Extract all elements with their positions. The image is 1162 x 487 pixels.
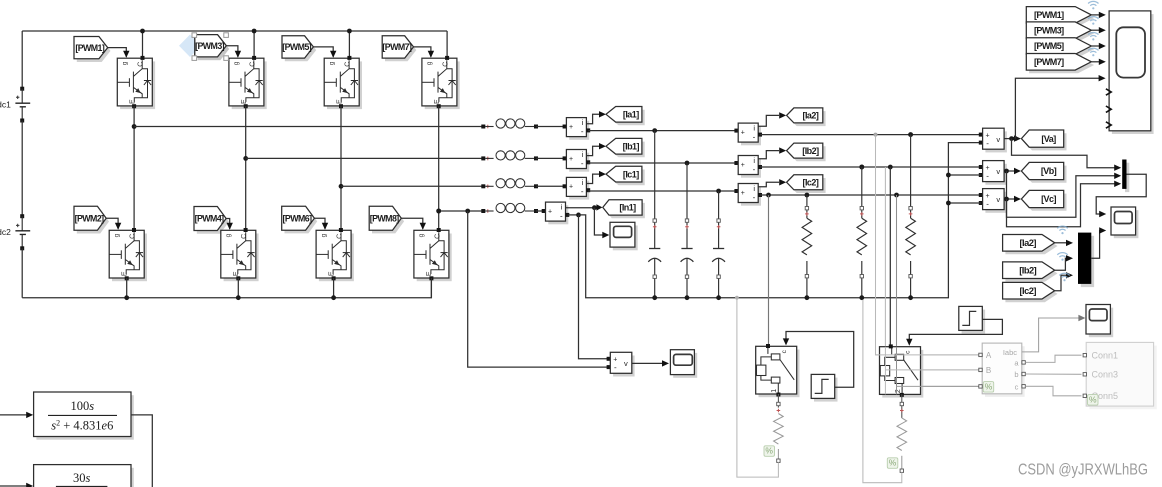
wire inductor to CM In1 (536, 210, 546, 212)
svg-text:+: + (548, 208, 552, 215)
From tag [PWM3] (redraw over highlight) (198, 38, 230, 60)
circuit breaker B1 (759, 350, 800, 398)
Goto tag [Ia1] (609, 110, 645, 126)
wire Vb to mux1 (1007, 171, 1118, 217)
comment badge R-B2 (887, 458, 898, 469)
port CM1 output (586, 128, 590, 132)
svg-text:[Ia2]: [Ia2] (1020, 238, 1037, 248)
battery Idc1 (20, 87, 24, 91)
wire phase c to breaker1 (768, 195, 770, 345)
svg-text:C: C (138, 62, 145, 67)
inductor L3 (481, 184, 485, 188)
port Iabc b out (1022, 372, 1025, 375)
svg-text:g: g (122, 61, 129, 65)
svg-text:C: C (249, 62, 256, 67)
svg-text:Conn3: Conn3 (1092, 370, 1119, 380)
capacitor C3 (718, 191, 720, 249)
wire Vb minus to rail (948, 174, 980, 176)
svg-text:E: E (328, 271, 335, 276)
wire commented phase a to Iabc A (876, 135, 980, 355)
resistor R2 (859, 165, 864, 170)
From tag [PWM1] monitor (1029, 10, 1094, 27)
wire neutral to capacitor bus (579, 143, 981, 298)
wire phase a stage2 (588, 130, 738, 132)
wire Va to scope input 5 (1015, 78, 1100, 138)
wire emitter to return bus leg3 (333, 278, 335, 298)
circuit breaker B2 (882, 350, 923, 398)
node phase tap leg2 (243, 156, 248, 161)
wire commented phase b to Iabc B (885, 167, 979, 370)
node commented return junction B1 (735, 296, 739, 300)
node neutral split (576, 213, 581, 218)
svg-text:B: B (986, 366, 991, 375)
port Iabc A (979, 353, 982, 356)
wire gate [PWM3] (226, 46, 238, 57)
capacitor C2 (686, 163, 688, 249)
transfer function 100s/(s^2+4.831e6) (36, 395, 133, 440)
From tag [PWM7] monitor (1029, 57, 1094, 74)
svg-text:[PWM5]: [PWM5] (282, 42, 312, 52)
wire left rail middle (21, 121, 23, 217)
svg-text:g: g (320, 233, 327, 237)
node return bus junction leg1 (124, 295, 129, 300)
scope Scope-In1 (613, 226, 638, 251)
wire [PWM3] to scope (1091, 29, 1101, 31)
Goto tag [Vc] (1024, 194, 1066, 211)
port Conn5 (1083, 394, 1086, 397)
svg-text:[PWM8]: [PWM8] (370, 213, 400, 223)
svg-text:A: A (986, 351, 992, 360)
wire Iabc c to Conn5 (1025, 386, 1081, 396)
svg-text:C: C (241, 234, 248, 239)
svg-text:-: - (581, 187, 584, 196)
port E lower leg2 (236, 276, 240, 280)
IGBT/Diode lower leg 3 (U6) (319, 234, 354, 282)
port V4 plus (607, 357, 611, 361)
wire step2 to breaker2 c (909, 319, 1002, 342)
transfer function 30s/(...) (36, 468, 133, 487)
current measurement CM2-2 (741, 159, 761, 178)
port CM2 input (563, 156, 567, 160)
port C lower leg4 (437, 228, 441, 232)
svg-text:[Ia1]: [Ia1] (623, 110, 639, 120)
node top bus junction leg3 (347, 29, 352, 34)
port V3 plus (979, 193, 983, 197)
node top bus junction leg2 (252, 29, 257, 34)
wire TF1 output (131, 415, 152, 487)
port breaker1 top (766, 344, 770, 348)
port C lower leg1 (132, 228, 136, 232)
wire i-out CM3 (586, 174, 599, 183)
From tag [PWM4] (197, 210, 229, 234)
step block Step1 (814, 378, 838, 402)
svg-text:[Ib2]: [Ib2] (802, 146, 819, 156)
wire i-out CM1 (586, 114, 599, 123)
svg-text:-: - (614, 363, 617, 372)
svg-text:[Vb]: [Vb] (1041, 166, 1057, 176)
wire commented Iabc A overlay (876, 354, 980, 356)
svg-text:E: E (233, 271, 240, 276)
node phase tap leg4 (436, 209, 441, 214)
svg-text:C: C (345, 62, 352, 67)
current measurement CM2-3 (741, 187, 761, 206)
IGBT/Diode lower leg 4 (U8) (417, 234, 452, 282)
node commented tap on phase a (874, 133, 878, 137)
capacitor C1 (654, 131, 656, 249)
svg-text:[PWM6]: [PWM6] (283, 213, 313, 223)
svg-text:+: + (741, 190, 745, 197)
port E upper leg2 (244, 104, 248, 108)
wire emitter to return bus leg4 (430, 278, 432, 298)
node Va junction 2 (1013, 136, 1018, 141)
wire commented pass-through over breaker2 a (884, 347, 886, 395)
wire phase c stage2 (588, 190, 738, 192)
port E upper leg1 (132, 104, 136, 108)
wire phase n to inductor (439, 210, 484, 212)
unconnected scope inputs (1106, 89, 1111, 95)
svg-text:C: C (337, 234, 344, 239)
svg-text:-: - (581, 159, 584, 168)
port breaker1 bottom (776, 393, 780, 397)
port Iabc C (979, 385, 982, 388)
wire inductor to CM Ia1 (536, 126, 566, 128)
port Iabc B (979, 368, 982, 371)
svg-text:c: c (1015, 382, 1019, 391)
battery Idc2 (20, 214, 24, 218)
port CM2-3 output (758, 193, 762, 197)
inductor L2 (481, 156, 485, 160)
svg-text:+: + (569, 156, 573, 163)
signal logging badge [PWM1] (1088, 1, 1098, 9)
From tag [PWM2] (77, 210, 109, 234)
port V4 minus (607, 365, 611, 369)
Goto tag [In1] (606, 203, 645, 218)
wire CM4 to Scope In1 (594, 208, 605, 235)
wire C-bus to IGBT1 (142, 31, 144, 58)
svg-text:Idc1: Idc1 (0, 99, 11, 109)
wire mux1 to scope VaVbVc (1096, 174, 1146, 214)
IGBT/Diode upper leg 3 (U5) (327, 61, 362, 109)
svg-text:-: - (581, 127, 584, 136)
port breaker2 bottom (900, 393, 904, 397)
signal logging badge Ic2 (1059, 273, 1069, 281)
port E lower leg4 (429, 276, 433, 280)
current measurement CM2 (569, 153, 589, 172)
wire C-bus to IGBT5 (348, 31, 350, 58)
wire phase c to inductor (341, 185, 483, 187)
wire phase b to breaker2 (889, 167, 891, 345)
port CM4 output (565, 213, 569, 217)
resistor R-B1 (commented) (777, 402, 780, 405)
wire V1 output (1004, 138, 1016, 140)
svg-text:Iabc: Iabc (1003, 348, 1017, 357)
voltage measurement Vc (985, 192, 1007, 213)
step block Step2 (962, 310, 986, 334)
From tag [PWM6] (285, 209, 318, 233)
svg-text:[Va]: [Va] (1041, 134, 1056, 144)
wire [Ib2] to mux2 (1055, 258, 1069, 270)
port CM3 input (563, 184, 567, 188)
svg-text:[Ic2]: [Ic2] (803, 178, 819, 188)
From tag [PWM5] monitor (1029, 41, 1094, 58)
node Va junction 1 (1009, 136, 1014, 141)
svg-text:g: g (426, 61, 433, 65)
wire [Ia2] to mux2 (1055, 242, 1069, 244)
port V1 plus (979, 133, 983, 137)
node top bus junction leg1 (140, 29, 145, 34)
wire phase leg 2 vertical (245, 106, 247, 230)
wire phase leg 4 vertical (438, 106, 440, 230)
wire inductor to CM Ib1 (536, 157, 566, 159)
svg-text:+: + (569, 184, 573, 191)
IGBT/Diode upper leg 1 (U1) (120, 61, 155, 109)
resistor R1 (805, 193, 810, 198)
node Vb junction (1004, 169, 1009, 174)
voltage measurement Va (985, 131, 1007, 152)
wire emitter to return bus leg1 (126, 278, 128, 298)
svg-text:v: v (996, 167, 1000, 176)
scope Scope-Iabc (1089, 308, 1113, 338)
Goto tag [Ib2] (789, 146, 825, 161)
node resistor R2 tap on phase b (859, 165, 864, 170)
IGBT/Diode upper leg 2 (U3) (232, 61, 267, 109)
wire bottom return bus (22, 278, 431, 298)
current measurement CM1 (569, 121, 589, 140)
node return bus junction leg2 (236, 295, 241, 300)
svg-text:C: C (442, 62, 449, 67)
svg-text:-: - (753, 165, 756, 174)
wire Iabc meas to scope3 (1022, 318, 1081, 352)
comment badge Iabc (983, 382, 994, 393)
port V3 minus (979, 201, 983, 205)
wire commented return loop B2 (863, 300, 902, 483)
comment badge Conn (1088, 395, 1099, 406)
node resistor R3 tap on phase a (908, 132, 913, 137)
wire phase leg 3 vertical (340, 106, 342, 230)
svg-text:30s: 30s (73, 471, 91, 485)
port CM2-2 output (758, 165, 762, 169)
port CM2-2 input (734, 161, 738, 165)
wire inductor to CM Ic1 (536, 185, 566, 187)
svg-text:g: g (418, 233, 425, 237)
wire phase b stage2 (588, 162, 738, 164)
wire Vc minus to rail (948, 202, 980, 204)
wire input to TF2 (0, 485, 29, 487)
signal logging badge [PWM3] (1088, 17, 1098, 25)
wire phase b to inductor (246, 157, 484, 159)
svg-text:%: % (985, 382, 993, 392)
wire commented pass-through over breaker2 b (896, 347, 898, 395)
svg-text:g: g (328, 61, 335, 65)
svg-text:[PWM2]: [PWM2] (75, 214, 105, 224)
block Iabc three-phase measurement (commented) (985, 346, 1025, 397)
svg-text:g: g (233, 61, 240, 65)
voltage measurement V4 (613, 356, 635, 377)
wire left rail lower (21, 248, 23, 297)
port Conn3 (1083, 373, 1086, 376)
svg-text:v: v (624, 359, 628, 368)
mux Mux2 (1081, 236, 1094, 287)
wire i-out CM2-3 (758, 182, 779, 186)
svg-text:+: + (741, 162, 745, 169)
wire phase b to V2 (760, 166, 981, 168)
node phase tap leg3 (339, 184, 344, 189)
wire Va to mux1 (1012, 139, 1118, 168)
svg-text:[PWM3]: [PWM3] (195, 41, 225, 51)
svg-text:Idc2: Idc2 (0, 227, 11, 237)
selection highlight diamond (179, 35, 201, 58)
port CM1 input (563, 125, 567, 129)
svg-text:CSDN @yJRXWLhBG: CSDN @yJRXWLhBG (1018, 462, 1148, 479)
wire i-out CM4 (566, 207, 595, 209)
scope Scope-Vdc (673, 353, 697, 378)
port CM2-3 input (734, 189, 738, 193)
IGBT/Diode upper leg 4 (U7) (425, 61, 460, 109)
resistor R-B2 (commented) (900, 402, 903, 405)
wire emitter to return bus leg2 (237, 278, 239, 298)
wire breaker1 to commented resistor (777, 394, 779, 408)
wire phase c to V3 (760, 194, 981, 196)
signal logging badge Ia2 (1057, 226, 1067, 234)
wire C-bus to IGBT3 (253, 31, 255, 58)
wire Iabc a to Conn1 (1025, 355, 1081, 362)
wire V2 output (1004, 170, 1016, 172)
svg-text:[PWM1]: [PWM1] (75, 43, 105, 53)
svg-text:v: v (996, 135, 1000, 144)
svg-text:E: E (241, 99, 248, 104)
port C lower leg3 (339, 228, 343, 232)
scope Scope-VaVbVc (1114, 210, 1139, 238)
port C upper leg1 (141, 56, 145, 60)
wire gate [PWM1] (108, 48, 127, 57)
wire commented Iabc C overlay (897, 385, 980, 387)
port E lower leg1 (125, 276, 129, 280)
wire C-bus to IGBT7 (446, 31, 448, 58)
port Iabc c out (1022, 385, 1025, 388)
wire commented Iabc B overlay (885, 369, 979, 371)
scope Scope-PWM (1112, 14, 1154, 134)
port CM2-1 output (758, 133, 762, 137)
wire In junction to V4 minus (468, 211, 609, 367)
IGBT/Diode lower leg 2 (U4) (224, 234, 259, 282)
wire [PWM5] to scope (1091, 45, 1101, 47)
svg-text:[Ia2]: [Ia2] (803, 111, 819, 121)
svg-text:C: C (434, 234, 441, 239)
Goto tag [Vb] (1024, 166, 1066, 183)
svg-text:-: - (753, 133, 756, 142)
selection handles PWM3 (192, 33, 197, 38)
wire i-out CM2 (586, 146, 599, 155)
current measurement CM4 (548, 205, 568, 224)
wire gate [PWM2] (106, 218, 118, 229)
wire gate [PWM6] (314, 218, 325, 229)
From tag [Ia2] (1005, 238, 1057, 255)
svg-text:[Ic2]: [Ic2] (1020, 286, 1037, 296)
port Conn1 (1083, 354, 1086, 357)
wire [PWM7] to scope (1091, 61, 1101, 63)
wire top DC bus (22, 30, 447, 32)
wire V3 output (1004, 198, 1016, 200)
wire gate [PWM8] (401, 218, 423, 229)
svg-text:-: - (560, 212, 563, 221)
svg-text:E: E (426, 271, 433, 276)
wire gate [PWM7] (414, 47, 431, 57)
svg-text:[PWM7]: [PWM7] (382, 42, 412, 52)
node breaker1 tap on phase c (766, 193, 771, 198)
resistor R3 (908, 132, 913, 137)
node commented tap2 on phase c (894, 193, 899, 198)
wire i-out CM2-2 (758, 151, 779, 159)
wire neutral from CM4 (567, 214, 578, 216)
wire gate [PWM5] (313, 47, 333, 57)
wire [PWM1] to scope (1091, 14, 1101, 16)
port CM4 input (542, 209, 546, 213)
Goto tag [Va] (1024, 133, 1066, 150)
svg-text:-: - (986, 171, 989, 180)
signal logging badge [PWM5] (1088, 32, 1098, 40)
From tag [PWM5] (285, 39, 316, 61)
port E upper leg4 (437, 104, 441, 108)
Goto tag [Ib1] (609, 142, 645, 158)
From tag [Ic2] (1005, 286, 1057, 303)
From tag [PWM1] (77, 40, 111, 62)
svg-text:[PWM5]: [PWM5] (1034, 41, 1064, 51)
wire gate [PWM4] (226, 219, 230, 229)
Goto tag [Ic2] (789, 178, 825, 193)
port CM3 output (586, 188, 590, 192)
inductor L1 (481, 125, 485, 129)
port CM2-1 input (734, 129, 738, 133)
wire left rail upper (21, 31, 23, 89)
inductor L4 (481, 209, 485, 213)
node capacitor tap 1 (652, 128, 657, 133)
port C upper leg4 (445, 56, 449, 60)
comment badge R-B1 (764, 446, 775, 457)
node capacitor tap 2 (685, 161, 690, 166)
svg-text:%: % (765, 446, 773, 456)
wire neutral to V4 plus (579, 215, 609, 359)
svg-text:1: 1 (771, 389, 778, 393)
svg-text:-: - (986, 199, 989, 208)
svg-text:+: + (569, 124, 573, 131)
wire Iabc b to Conn3 (1025, 373, 1081, 375)
mux Mux1 (1125, 163, 1129, 192)
subsystem Conn (commented) (1089, 346, 1156, 410)
wire breaker2 to commented resistor (901, 394, 903, 418)
svg-text:100s: 100s (70, 399, 94, 413)
wire mux2 to scope (1091, 231, 1101, 259)
From tag [PWM7] (385, 39, 416, 61)
node rail junction Vb (946, 173, 951, 178)
port C upper leg2 (252, 56, 256, 60)
node Vc junction (1004, 197, 1009, 202)
svg-text:E: E (434, 99, 441, 104)
svg-text:[In1]: [In1] (619, 203, 636, 213)
Goto tag [Ia2] (789, 111, 825, 126)
svg-text:E: E (121, 271, 128, 276)
svg-text:C: C (130, 234, 137, 239)
current measurement CM2-1 (741, 126, 761, 145)
svg-text:-: - (986, 139, 989, 148)
svg-text:Conn1: Conn1 (1092, 350, 1119, 360)
node In line junction A (436, 209, 441, 214)
node In line junction B (465, 209, 470, 214)
svg-text:[PWM1]: [PWM1] (1034, 10, 1064, 20)
signal logging badge Ib2 (1057, 253, 1067, 261)
svg-text:%: % (889, 458, 897, 468)
wire commented return loop B1 (737, 298, 779, 477)
svg-text:[Ib2]: [Ib2] (1019, 265, 1036, 275)
